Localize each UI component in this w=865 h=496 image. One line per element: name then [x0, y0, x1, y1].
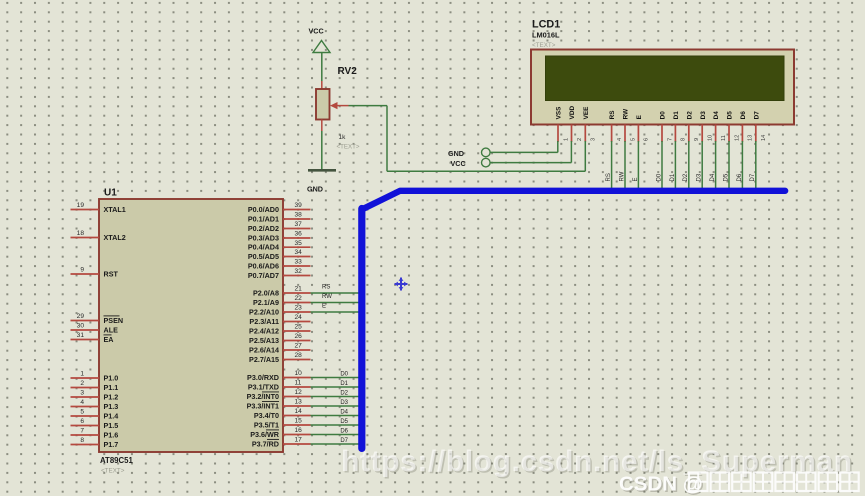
terminal VCC circle: [482, 158, 491, 167]
svg-text:8: 8: [80, 437, 84, 444]
LCD1 pin 11 D4 (label + stub + number): [713, 111, 727, 142]
svg-text:ALE: ALE: [104, 325, 119, 334]
svg-text:P0.1/AD1: P0.1/AD1: [248, 214, 279, 223]
power VCC arrow symbol: [313, 41, 330, 53]
U1 pin 26 P2.5/A13 (right stub): [249, 333, 310, 345]
svg-text:1: 1: [80, 371, 84, 378]
LCD1 pin 4 RS (label + stub + number): [609, 110, 623, 142]
svg-text:VCC: VCC: [451, 159, 466, 168]
svg-text:P3.0/RXD: P3.0/RXD: [247, 373, 279, 382]
svg-text:13: 13: [748, 135, 754, 141]
power VCC label (top of RV2): [309, 27, 324, 36]
svg-text:P0.0/AD0: P0.0/AD0: [248, 205, 279, 214]
svg-text:LM016L: LM016L: [532, 31, 560, 40]
U1 pin 7 P1.6 (left stub + number + label): [71, 428, 119, 440]
svg-text:P3.6/WR: P3.6/WR: [250, 430, 280, 439]
svg-text:E: E: [322, 303, 326, 309]
svg-text:D5: D5: [723, 173, 729, 181]
svg-text:D3: D3: [697, 173, 703, 181]
terminal VCC label: [451, 159, 466, 168]
U1 pin 13 P3.3/INT1 (right stub): [247, 399, 311, 411]
LCD1 pin 1 VSS (label + stub + number): [556, 106, 570, 142]
U1 part value AT89C51: [100, 456, 133, 465]
U1 pin 25 P2.4/A12 (right stub): [249, 324, 310, 336]
svg-text:RST: RST: [104, 269, 119, 278]
U1 text placeholder: [101, 468, 125, 475]
svg-text:U1: U1: [104, 188, 117, 199]
svg-text:13: 13: [295, 399, 303, 406]
svg-text:P2.4/A12: P2.4/A12: [249, 326, 279, 335]
svg-text:P1.2: P1.2: [104, 392, 119, 401]
wire LCD D4 down to bus: [710, 141, 716, 193]
U1 pin 5 P1.4 (left stub + number + label): [71, 409, 119, 421]
svg-text:4: 4: [80, 399, 84, 406]
U1 pin 1 P1.0 (left stub + number + label): [71, 371, 119, 383]
RV2 top pin stub: [321, 81, 323, 90]
svg-text:P3.3/INT1: P3.3/INT1: [247, 401, 279, 410]
svg-text:12: 12: [295, 389, 303, 396]
svg-text:37: 37: [295, 221, 303, 228]
RV2 text placeholder: [337, 144, 360, 151]
svg-text:VSS: VSS: [556, 106, 563, 120]
U1 pin 34 P0.5/AD5 (right stub, unconnected): [248, 249, 311, 261]
svg-text:<TEXT>: <TEXT>: [337, 144, 360, 151]
editor cursor cross: [395, 278, 408, 291]
svg-text:RW: RW: [619, 171, 625, 181]
LCD1 display screen: [546, 56, 785, 101]
svg-text:32: 32: [295, 268, 303, 275]
LCD1 pin 14 D7 (label + stub + number): [753, 111, 767, 142]
svg-text:D7: D7: [340, 438, 348, 444]
op-amp U1 body (AT89C51 microcontroller body): [99, 199, 283, 452]
svg-text:D7: D7: [750, 173, 756, 181]
svg-text:D5: D5: [727, 111, 734, 120]
svg-text:LCD1: LCD1: [532, 19, 560, 31]
svg-text:XTAL1: XTAL1: [104, 205, 126, 214]
wire LCD VSS down to GND run: [557, 141, 559, 152]
svg-text:16: 16: [295, 427, 303, 434]
wire LCD D7 down to bus: [750, 141, 756, 193]
svg-text:P0.3/AD3: P0.3/AD3: [248, 233, 279, 242]
svg-text:21: 21: [295, 286, 303, 293]
svg-text:38: 38: [295, 212, 303, 219]
U1 pin 32 P0.7/AD7 (right stub, unconnected): [248, 268, 311, 280]
svg-text:29: 29: [77, 313, 85, 320]
LCD1 pin 10 D3 (label + stub + number): [700, 111, 714, 142]
svg-text:VDD: VDD: [569, 106, 576, 120]
svg-text:P0.2/AD2: P0.2/AD2: [248, 224, 279, 233]
U1 pin 11 P3.1/TXD (right stub): [248, 380, 311, 392]
svg-text:D3: D3: [700, 111, 707, 120]
U1 pin 29 PSEN (left stub + number + label): [71, 313, 124, 325]
LCD1 part value LM016L: [532, 31, 560, 40]
LCD1 pin 13 D6 (label + stub + number): [740, 111, 754, 142]
svg-text:XTAL2: XTAL2: [104, 233, 126, 242]
svg-text:P1.1: P1.1: [104, 383, 119, 392]
svg-text:D0: D0: [340, 372, 348, 378]
svg-text:31: 31: [77, 332, 85, 339]
svg-text:6: 6: [644, 138, 650, 141]
wire RV2 bottom to ground: [321, 131, 323, 170]
U1 pin 6 P1.5 (left stub + number + label): [71, 418, 119, 430]
wire net RS from U1 pin 21 to bus: [311, 284, 359, 293]
svg-text:P0.6/AD6: P0.6/AD6: [248, 261, 279, 270]
U1 pin 15 P3.5/T1 (right stub): [254, 418, 311, 430]
ground GND label: [307, 185, 323, 194]
U1 pin 33 P0.6/AD6 (right stub, unconnected): [248, 259, 311, 271]
svg-text:9: 9: [694, 138, 700, 141]
svg-text:2: 2: [80, 380, 84, 387]
svg-text:P1.4: P1.4: [104, 411, 119, 420]
svg-text:25: 25: [295, 324, 303, 331]
wire GND terminal to LCD VSS: [490, 151, 558, 153]
svg-text:<TEXT>: <TEXT>: [101, 468, 125, 475]
svg-text:5: 5: [80, 409, 84, 416]
U1 pin 17 P3.7/RD (right stub): [252, 437, 311, 449]
U1 pin 14 P3.4/T0 (right stub): [254, 408, 311, 420]
LCD1 body: [531, 50, 794, 125]
U1 pin 9 RST (left stub + number + label): [71, 267, 119, 279]
wire LCD VDD down to VCC run: [570, 141, 572, 163]
svg-text:RW: RW: [322, 294, 332, 300]
svg-text:D4: D4: [713, 111, 720, 120]
wire LCD E down to bus: [633, 141, 639, 193]
svg-text:18: 18: [77, 230, 85, 237]
U1 pin 19 XTAL1 (left stub + number + label): [71, 202, 126, 214]
U1 pin 16 P3.6/WR (right stub): [250, 427, 310, 439]
svg-text:10: 10: [708, 135, 714, 141]
svg-text:RW: RW: [623, 108, 630, 119]
wire LCD D5 down to bus: [723, 141, 729, 193]
svg-text:8: 8: [681, 138, 687, 141]
wire net D2 from U1 pin 12 to bus: [311, 391, 359, 397]
svg-text:E: E: [633, 177, 639, 181]
U1 pin 12 P3.2/INT0 (right stub): [247, 389, 311, 401]
LCD1 pin 6 E (label + stub + number): [636, 114, 650, 142]
svg-text:10: 10: [295, 370, 303, 377]
svg-text:E: E: [636, 114, 643, 119]
svg-text:D0: D0: [656, 173, 662, 181]
svg-text:D4: D4: [340, 410, 348, 416]
svg-text:30: 30: [77, 323, 85, 330]
svg-text:VEE: VEE: [583, 106, 590, 120]
svg-text:D6: D6: [737, 173, 743, 181]
svg-text:P2.3/A11: P2.3/A11: [249, 317, 279, 326]
svg-text:7: 7: [80, 428, 84, 435]
terminal GND label: [448, 149, 464, 158]
svg-text:D5: D5: [340, 419, 348, 425]
svg-text:15: 15: [295, 418, 303, 425]
LCD1 pin 9 D2 (label + stub + number): [686, 111, 700, 142]
svg-text:11: 11: [721, 135, 727, 141]
svg-text:P1.0: P1.0: [104, 373, 119, 382]
LCD1 pin 8 D1 (label + stub + number): [673, 111, 687, 142]
U1 pin 10 P3.0/RXD (right stub): [247, 370, 310, 382]
svg-text:D2: D2: [686, 111, 693, 120]
svg-text:P1.7: P1.7: [104, 440, 119, 449]
svg-text:GND: GND: [448, 149, 464, 158]
svg-text:D1: D1: [670, 173, 676, 181]
resistor RV2 reference label: [338, 66, 358, 77]
LCD1 pin 2 VDD (label + stub + number): [569, 106, 583, 142]
svg-text:D2: D2: [340, 391, 348, 397]
U1 pin 8 P1.7 (left stub + number + label): [71, 437, 119, 449]
LCD1 text placeholder: [532, 42, 556, 49]
U1 pin 18 XTAL2 (left stub + number + label): [71, 230, 126, 242]
svg-text:P2.2/A10: P2.2/A10: [249, 307, 279, 316]
wire LCD D2 down to bus: [683, 141, 689, 193]
svg-text:33: 33: [295, 259, 303, 266]
terminal GND circle: [482, 148, 491, 157]
svg-text:4: 4: [617, 138, 623, 141]
U1 pin 2 P1.1 (left stub + number + label): [71, 380, 119, 392]
svg-text:P3.2/INT0: P3.2/INT0: [247, 392, 279, 401]
svg-text:D4: D4: [710, 173, 716, 181]
RV2 value label 1k: [339, 134, 347, 141]
U1 pin 4 P1.3 (left stub + number + label): [71, 399, 119, 411]
svg-text:34: 34: [295, 249, 303, 256]
svg-text:7: 7: [667, 138, 673, 141]
U1 pin 35 P0.4/AD4 (right stub, unconnected): [248, 240, 311, 252]
LCD1 pin 3 VEE (label + stub + number): [583, 106, 597, 142]
svg-text:P0.7/AD7: P0.7/AD7: [248, 271, 279, 280]
wire net D0 from U1 pin 10 to bus: [311, 372, 359, 378]
U1 pin 36 P0.3/AD3 (right stub, unconnected): [248, 231, 311, 243]
svg-text:14: 14: [295, 408, 303, 415]
wire LCD VEE down to RV2 wiper run: [584, 141, 586, 171]
U1 pin 38 P0.1/AD1 (right stub, unconnected): [248, 212, 311, 224]
svg-text:P2.0/A8: P2.0/A8: [253, 288, 279, 297]
svg-text:D7: D7: [753, 111, 760, 120]
svg-text:P3.4/T0: P3.4/T0: [254, 411, 279, 420]
svg-text:3: 3: [80, 390, 84, 397]
svg-text:PSEN: PSEN: [104, 316, 124, 325]
wire net D3 from U1 pin 13 to bus: [311, 400, 359, 406]
LCD1 reference label: [532, 19, 560, 31]
svg-text:9: 9: [80, 267, 84, 274]
U1 pin 22 P2.1/A9 (right stub): [253, 295, 310, 307]
U1 pin 28 P2.7/A15 (right stub): [249, 352, 310, 364]
svg-text:AT89C51: AT89C51: [100, 456, 133, 465]
svg-text:P3.1/TXD: P3.1/TXD: [248, 382, 279, 391]
watermark: big url text: [341, 445, 854, 480]
svg-text:D6: D6: [740, 111, 747, 120]
wire VCC terminal to LCD VDD: [490, 162, 571, 164]
svg-text:RS: RS: [609, 110, 616, 120]
svg-text:26: 26: [295, 333, 303, 340]
wire net D7 from U1 pin 17 to bus: [311, 438, 359, 444]
svg-text:<TEXT>: <TEXT>: [532, 42, 556, 49]
resistor RV2 body (potentiometer): [316, 89, 330, 120]
svg-text:P1.3: P1.3: [104, 402, 119, 411]
svg-text:3: 3: [591, 138, 597, 141]
wire net RW from U1 pin 22 to bus: [311, 294, 359, 303]
svg-text:D1: D1: [673, 111, 680, 120]
wire net D1 from U1 pin 11 to bus: [311, 381, 359, 387]
wire LCD RW down to bus: [619, 141, 625, 193]
U1 pin 37 P0.2/AD2 (right stub, unconnected): [248, 221, 311, 233]
svg-text:D0: D0: [660, 111, 667, 120]
svg-text:P2.1/A9: P2.1/A9: [253, 298, 279, 307]
svg-text:D2: D2: [683, 173, 689, 181]
wire LCD D1 down to bus: [670, 141, 676, 193]
svg-text:P2.7/A15: P2.7/A15: [249, 355, 279, 364]
RV2 bottom pin stub: [321, 120, 323, 132]
svg-text:24: 24: [295, 314, 303, 321]
U1 pin 30 ALE (left stub + number + label): [71, 323, 119, 335]
U1 pin 31 EA (left stub + number + label): [71, 332, 114, 344]
svg-text:EA: EA: [104, 335, 114, 344]
svg-text:35: 35: [295, 240, 303, 247]
svg-text:P0.4/AD4: P0.4/AD4: [248, 243, 279, 252]
LCD1 pin 12 D5 (label + stub + number): [727, 111, 741, 142]
U1 pin 23 P2.2/A10 (right stub): [249, 305, 310, 317]
ground symbol (below RV2): [308, 169, 336, 172]
U1 pin 39 P0.0/AD0 (right stub, unconnected): [248, 202, 311, 214]
svg-text:P0.5/AD5: P0.5/AD5: [248, 252, 279, 261]
svg-text:23: 23: [295, 305, 303, 312]
svg-text:P3.7/RD: P3.7/RD: [252, 439, 279, 448]
wire LCD D6 down to bus: [737, 141, 743, 193]
wire LCD D3 down to bus: [697, 141, 703, 193]
bus (thick blue): horizontal run, corner, vertical run: [362, 191, 785, 449]
wire net E from U1 pin 23 to bus: [311, 303, 359, 312]
wire net D6 from U1 pin 16 to bus: [311, 429, 359, 435]
svg-text:39: 39: [295, 202, 303, 209]
wire VCC arrow to RV2 top: [321, 53, 323, 82]
svg-text:22: 22: [295, 295, 303, 302]
svg-text:GND: GND: [307, 185, 323, 194]
svg-text:P1.5: P1.5: [104, 421, 119, 430]
LCD1 pin 5 RW (label + stub + number): [623, 108, 637, 142]
wire VEE net: down: [386, 106, 388, 172]
svg-text:RS: RS: [322, 284, 330, 290]
RV2 wiper arrow: [330, 102, 349, 109]
svg-text:5: 5: [630, 138, 636, 141]
U1 pin 27 P2.6/A14 (right stub): [249, 343, 310, 355]
wire net D5 from U1 pin 15 to bus: [311, 419, 359, 425]
U1 pin 3 P1.2 (left stub + number + label): [71, 390, 119, 402]
LCD1 pin 7 D0 (label + stub + number): [660, 111, 674, 142]
svg-text:P3.5/T1: P3.5/T1: [254, 420, 279, 429]
svg-text:VCC: VCC: [309, 27, 324, 36]
svg-text:11: 11: [295, 380, 302, 387]
svg-text:6: 6: [80, 418, 84, 425]
svg-text:P1.6: P1.6: [104, 430, 119, 439]
watermark: CSDN handle: [619, 473, 859, 496]
svg-text:D6: D6: [340, 429, 348, 435]
IC U1 reference label: [104, 188, 117, 199]
svg-text:RV2: RV2: [338, 66, 358, 77]
svg-text:17: 17: [295, 437, 303, 444]
U1 pin 24 P2.3/A11 (right stub): [249, 314, 310, 326]
svg-text:2: 2: [577, 138, 583, 141]
wire LCD D0 down to bus: [656, 141, 662, 193]
svg-text:27: 27: [295, 343, 303, 350]
svg-text:1k: 1k: [339, 134, 347, 141]
wire RV2 wiper to VEE net: right: [349, 105, 388, 107]
svg-text:19: 19: [77, 202, 85, 209]
svg-text:P2.5/A13: P2.5/A13: [249, 336, 279, 345]
wire VEE net: right to LCD pin 3 column: [387, 170, 585, 172]
svg-text:D1: D1: [340, 381, 348, 387]
svg-text:D3: D3: [340, 400, 348, 406]
wire net D4 from U1 pin 14 to bus: [311, 410, 359, 416]
svg-text:28: 28: [295, 352, 303, 359]
U1 pin 21 P2.0/A8 (right stub): [253, 286, 310, 298]
svg-text:RS: RS: [606, 173, 612, 181]
svg-text:P2.6/A14: P2.6/A14: [249, 345, 279, 354]
wire LCD RS down to bus: [606, 141, 612, 193]
svg-text:12: 12: [734, 135, 740, 141]
svg-text:14: 14: [761, 135, 767, 141]
svg-text:1: 1: [563, 138, 569, 141]
svg-text:36: 36: [295, 231, 303, 238]
